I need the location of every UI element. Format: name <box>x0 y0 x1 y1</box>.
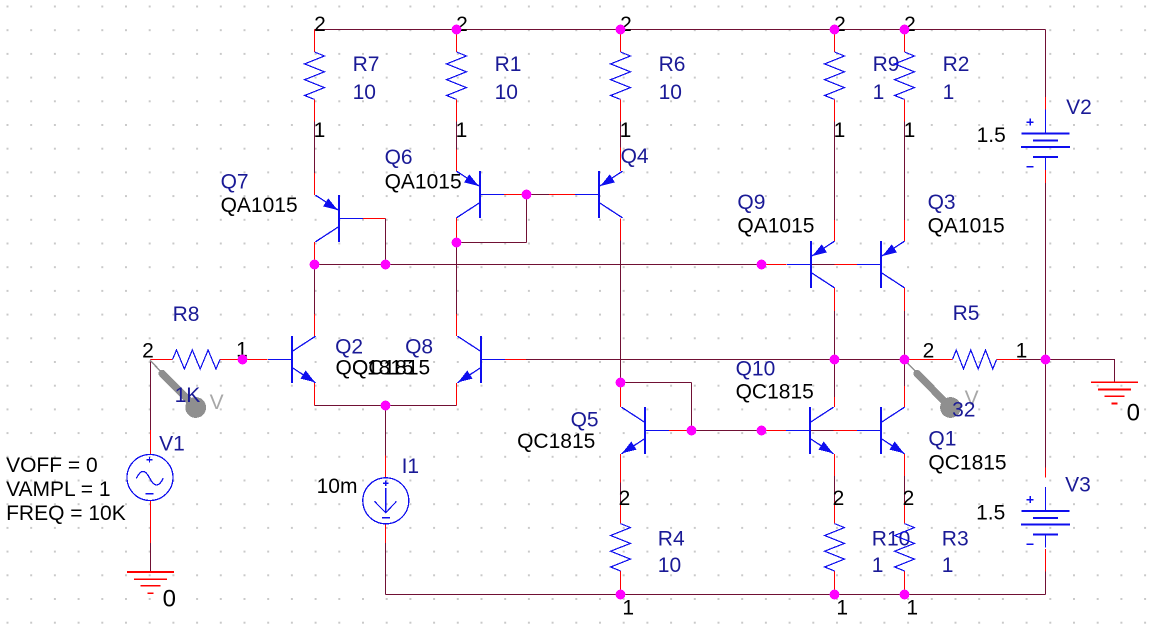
transistor Q9 <box>737 191 834 288</box>
wire bottom rail <box>386 594 1046 596</box>
junction output rail / Q1 collector <box>900 355 910 365</box>
svg-text:0: 0 <box>163 586 176 613</box>
svg-text:1: 1 <box>836 597 848 620</box>
wire V1 to ground <box>150 501 152 572</box>
svg-text:2: 2 <box>142 340 154 363</box>
svg-text:1: 1 <box>456 119 468 142</box>
junction base rail 2 <box>757 426 767 436</box>
voltage probe right <box>905 360 979 418</box>
ground 0 right <box>1091 382 1140 426</box>
svg-text:V2: V2 <box>1066 96 1092 119</box>
svg-text:1.5: 1.5 <box>977 124 1006 147</box>
svg-text:1: 1 <box>873 81 885 104</box>
svg-text:QA1015: QA1015 <box>737 215 814 238</box>
voltage source V1 <box>6 433 185 526</box>
transistor Q7 <box>221 171 363 242</box>
battery V2 <box>977 96 1092 170</box>
wire R10 to bottom rail <box>834 571 836 595</box>
wire output node to right ground <box>1046 360 1116 383</box>
svg-text:R6: R6 <box>659 53 686 76</box>
wire R1 to Q6 emitter <box>456 121 458 172</box>
wire Q6 base to Q4 base <box>504 194 576 196</box>
wire Q5 emitter to R4 <box>620 454 622 524</box>
svg-text:V3: V3 <box>1065 474 1091 497</box>
svg-text:2: 2 <box>903 487 915 510</box>
resistor R5 <box>923 302 1028 369</box>
svg-text:Q9: Q9 <box>737 191 765 214</box>
wire V+ column down to V2 <box>1045 30 1047 110</box>
svg-text:1: 1 <box>834 119 846 142</box>
wire Q9 base to Q3 base <box>811 264 857 266</box>
wire Q8 emitter corner <box>386 383 457 406</box>
wire Q5 collector loop <box>621 383 692 431</box>
svg-text:I1: I1 <box>402 455 420 478</box>
wire mirror-bias rail <box>315 264 787 266</box>
junction bottom rail / R10 <box>830 590 840 600</box>
svg-text:R1: R1 <box>495 53 522 76</box>
svg-text:Q6: Q6 <box>385 146 413 169</box>
transistor Q1 <box>857 407 1006 474</box>
svg-text:1: 1 <box>622 597 634 620</box>
junction top rail / R2 <box>900 25 910 35</box>
wire I1 to bottom rail <box>385 524 387 595</box>
wire Q4 collector down <box>620 218 622 382</box>
svg-text:1: 1 <box>904 119 916 142</box>
svg-text:Q5: Q5 <box>571 409 599 432</box>
junction bottom rail / R3 <box>900 590 910 600</box>
svg-text:1: 1 <box>872 554 884 577</box>
svg-text:10: 10 <box>495 81 518 104</box>
wire node down to Q8 collector <box>456 243 458 337</box>
transistor Q5 <box>517 407 669 454</box>
wire Q1 emitter to R3 <box>904 454 906 524</box>
junction Q6 collector node <box>452 238 462 248</box>
svg-text:QA1015: QA1015 <box>385 171 462 194</box>
wire tail down to I1 <box>385 406 387 478</box>
resistor R3 <box>895 487 969 620</box>
wire V3 to bottom rail <box>1045 549 1047 595</box>
wire top supply rail <box>315 29 1046 31</box>
wire Q7 base down to rail <box>362 219 386 265</box>
svg-text:1.5: 1.5 <box>976 502 1005 525</box>
current source I1 <box>317 455 420 524</box>
ground 0 left <box>127 572 176 613</box>
wire Q8 base to output rail <box>505 359 835 361</box>
svg-text:2: 2 <box>314 13 326 36</box>
junction Q5 collector <box>616 378 626 388</box>
svg-text:0: 0 <box>1127 400 1140 427</box>
svg-text:1: 1 <box>1016 340 1028 363</box>
junction output rail / supplies <box>1041 355 1051 365</box>
wire Q5 base to Q10 base <box>669 430 787 432</box>
transistor Q8 <box>352 336 505 383</box>
svg-text:QC1815: QC1815 <box>352 357 430 380</box>
junction mirror rail / Q7 collector <box>310 260 320 270</box>
resistor R9 <box>825 13 900 142</box>
wire Q3 collector to output rail <box>904 288 906 360</box>
wire R7 to Q7 emitter <box>314 122 316 196</box>
svg-text:R7: R7 <box>353 53 380 76</box>
resistor R4 <box>611 487 685 620</box>
resistor R7 <box>305 13 380 142</box>
svg-text:1: 1 <box>943 81 955 104</box>
svg-text:10: 10 <box>658 554 681 577</box>
svg-text:Q2: Q2 <box>335 336 363 359</box>
wire R9 to Q9 emitter <box>834 122 836 242</box>
junction bottom rail / R4 <box>616 590 626 600</box>
svg-text:2: 2 <box>619 487 631 510</box>
svg-text:10: 10 <box>353 81 376 104</box>
svg-text:Q8: Q8 <box>405 336 433 359</box>
wire R4 to bottom rail <box>620 571 622 595</box>
junction R8 / Q2 base <box>238 355 248 365</box>
svg-text:QC1815: QC1815 <box>736 381 814 404</box>
wire R6 to Q4 emitter <box>620 122 622 172</box>
wire output node to V3 <box>1045 360 1047 478</box>
transistor Q2 <box>268 336 414 383</box>
resistor R8 <box>142 303 248 407</box>
junction top rail / R9 <box>830 25 840 35</box>
resistor R2 <box>895 13 970 142</box>
svg-text:R2: R2 <box>943 53 970 76</box>
transistor Q10 <box>736 358 834 454</box>
wire rail to Q2 collector <box>314 265 316 337</box>
junction Q6 base node <box>522 190 532 200</box>
junction top rail / R6 <box>616 25 626 35</box>
svg-text:R3: R3 <box>942 527 969 550</box>
svg-text:Q3: Q3 <box>928 191 956 214</box>
svg-text:Q10: Q10 <box>736 358 776 381</box>
svg-text:1: 1 <box>314 119 326 142</box>
transistor Q6 <box>385 146 504 218</box>
svg-text:VAMPL = 1: VAMPL = 1 <box>6 478 110 501</box>
wire Q6 collector to node <box>456 218 458 243</box>
resistor R6 <box>611 13 686 142</box>
svg-text:Q1: Q1 <box>928 428 956 451</box>
junction Q5 base node <box>687 426 697 436</box>
svg-text:1K: 1K <box>175 384 201 407</box>
voltage probe left <box>150 360 224 418</box>
svg-text:Q7: Q7 <box>221 171 249 194</box>
svg-text:R8: R8 <box>173 303 200 326</box>
wire R8 left stub <box>151 359 173 361</box>
wire R5 left lead <box>908 359 953 361</box>
resistor R1 <box>447 13 522 142</box>
wire Q9 collector to output rail <box>834 288 836 360</box>
svg-text:QA1015: QA1015 <box>928 215 1005 238</box>
svg-text:Q4: Q4 <box>621 145 649 168</box>
wire R2 to Q3 emitter <box>904 122 906 242</box>
label net 32 <box>952 399 975 422</box>
wire V2 to output node <box>1045 170 1047 360</box>
svg-text:1: 1 <box>942 554 954 577</box>
svg-text:2: 2 <box>833 487 845 510</box>
wire Q6 feedback loop <box>457 195 527 243</box>
wire R5 right lead to node <box>997 359 1046 361</box>
svg-text:V1: V1 <box>159 433 185 456</box>
wire Q10 emitter to R10 <box>834 454 836 524</box>
transistor Q3 <box>857 191 1004 288</box>
junction mirror rail / Q7 base <box>381 260 391 270</box>
wire output rail to Q10 collector <box>834 360 836 408</box>
svg-text:VOFF = 0: VOFF = 0 <box>6 454 98 477</box>
wire R8 to Q2 base <box>220 359 268 361</box>
svg-text:32: 32 <box>952 399 975 422</box>
svg-text:FREQ = 10K: FREQ = 10K <box>6 502 126 525</box>
wire Q5 collector stub <box>620 386 622 408</box>
svg-text:QA1015: QA1015 <box>221 194 298 217</box>
battery V3 <box>976 474 1091 548</box>
wire output rail to Q1 collector <box>904 360 906 408</box>
transistor Q4 <box>575 145 649 218</box>
svg-text:10: 10 <box>659 81 682 104</box>
junction output rail / Q10 collector <box>830 355 840 365</box>
svg-text:1: 1 <box>620 119 632 142</box>
svg-text:R5: R5 <box>953 302 980 325</box>
wire Q10 base to Q1 base <box>810 430 857 432</box>
wire R3 to bottom rail <box>904 571 906 595</box>
junction emitter tail <box>381 401 391 411</box>
svg-text:R4: R4 <box>658 527 685 550</box>
svg-text:10m: 10m <box>317 475 358 498</box>
svg-text:QC1815: QC1815 <box>928 452 1006 475</box>
junction mirror rail right <box>757 260 767 270</box>
junction top rail / R1 <box>452 25 462 35</box>
wire output rail middle <box>835 359 953 361</box>
svg-text:QC1815: QC1815 <box>517 430 595 453</box>
wire Q7 collector to rail <box>314 242 316 265</box>
resistor R10 <box>825 487 911 620</box>
svg-text:V: V <box>210 391 224 414</box>
wire R8 node to V1 <box>150 360 152 455</box>
svg-text:1: 1 <box>906 597 918 620</box>
wire Q2 emitter corner <box>315 383 386 406</box>
